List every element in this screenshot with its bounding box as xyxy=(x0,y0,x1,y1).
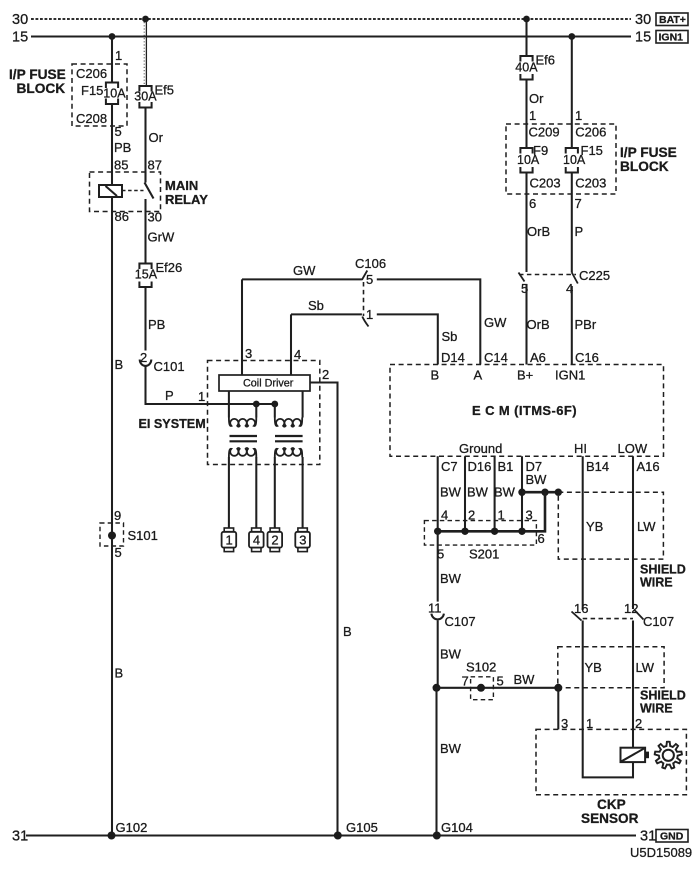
fuse F15 10A (I/P fuse block left) xyxy=(103,83,126,105)
wire: C101 to coil driver pin 1, P xyxy=(146,366,275,404)
svg-text:EI SYSTEM: EI SYSTEM xyxy=(139,417,206,431)
CKP pickup element xyxy=(621,748,650,762)
svg-text:9: 9 xyxy=(114,508,121,523)
svg-text:C225: C225 xyxy=(579,268,610,283)
svg-text:15: 15 xyxy=(635,30,651,46)
relay switch blade (pins 87-30) xyxy=(145,172,154,212)
wire: shield box 2 down to CKP pin 3 xyxy=(557,688,559,730)
ground node G104 xyxy=(433,820,473,840)
svg-text:BAT+: BAT+ xyxy=(659,14,686,26)
svg-text:C206: C206 xyxy=(76,66,107,81)
svg-text:2: 2 xyxy=(635,716,642,731)
node: shield box 1 terminal xyxy=(555,489,562,496)
node: S201 bus junction D16 xyxy=(461,528,468,535)
svg-text:1: 1 xyxy=(586,716,593,731)
svg-text:C206: C206 xyxy=(575,125,606,140)
fuse Ef6 40A xyxy=(515,53,555,80)
wire: ECM pin B14 (HI) down to C107 pin 16, YB xyxy=(583,456,609,610)
svg-text:10A: 10A xyxy=(563,153,586,167)
svg-text:5: 5 xyxy=(115,124,122,139)
svg-text:SHIELD: SHIELD xyxy=(640,689,686,703)
svg-text:GW: GW xyxy=(293,263,316,278)
svg-text:OrB: OrB xyxy=(527,317,550,332)
svg-text:4: 4 xyxy=(253,533,260,548)
fuse Ef5 30A xyxy=(134,83,174,108)
svg-text:15: 15 xyxy=(12,30,28,46)
svg-text:Ef6: Ef6 xyxy=(536,53,556,68)
CKP pin labels 3 / 1 / 2 xyxy=(561,716,642,731)
svg-text:16: 16 xyxy=(574,601,588,616)
svg-text:S201: S201 xyxy=(469,547,499,562)
wire: T2 secondary to spark plug 3 xyxy=(302,457,304,528)
bus rail 15 (IGN1) xyxy=(12,30,651,46)
wire: ECM pin A16 (LOW) down to C107 pin 12, LW xyxy=(633,456,660,609)
svg-text:1: 1 xyxy=(115,48,122,63)
node: S201 bus junction C7 xyxy=(434,528,441,535)
svg-text:GW: GW xyxy=(484,315,507,330)
connector C106 pin 5 hook xyxy=(362,271,367,280)
svg-text:I/P FUSE: I/P FUSE xyxy=(9,67,66,82)
wire: S201 splice bus xyxy=(438,492,545,531)
node: S201 bus junction B1 xyxy=(491,528,498,535)
svg-text:LW: LW xyxy=(636,660,655,675)
svg-text:Sb: Sb xyxy=(308,298,324,313)
node: junction of F15 feed on rail 15 xyxy=(109,33,116,40)
svg-text:D14: D14 xyxy=(441,350,465,365)
wire: coil driver pin 2 right then down to G105, B xyxy=(310,367,352,836)
svg-text:10A: 10A xyxy=(517,153,540,167)
ECM pin C7 wire to S201 xyxy=(438,456,462,531)
svg-text:1: 1 xyxy=(198,389,205,404)
I/P FUSE BLOCK (right) dashed box xyxy=(506,124,677,194)
svg-text:1: 1 xyxy=(366,307,373,322)
fuse Ef26 15A xyxy=(135,260,182,287)
IGN1 terminal box xyxy=(656,31,688,44)
spark plug 1 xyxy=(222,528,237,552)
svg-text:B: B xyxy=(431,368,440,383)
svg-text:12: 12 xyxy=(624,601,638,616)
spark plug 2 xyxy=(268,528,283,552)
svg-text:P: P xyxy=(165,388,174,403)
wire: Sb from C106 to ECM pin D14 xyxy=(377,314,458,364)
wire: C225 pin 5 to ECM pin A6, OrB xyxy=(527,284,550,365)
svg-text:A16: A16 xyxy=(637,459,660,474)
CKP reluctor gear xyxy=(655,742,682,769)
ignition coil T1 core xyxy=(230,436,258,441)
svg-text:WIRE: WIRE xyxy=(640,702,673,716)
wire: shield drain to shield box 1 xyxy=(522,491,558,494)
svg-text:C107: C107 xyxy=(643,614,674,629)
svg-text:6: 6 xyxy=(529,196,536,211)
shield wire box 1 (dashed) xyxy=(558,492,686,589)
node: primary feed junction T1 xyxy=(253,401,260,408)
wire: S101 down to ground G102, B xyxy=(112,539,123,836)
svg-text:C208: C208 xyxy=(76,111,107,126)
connector C106 pin 1 hook xyxy=(362,317,368,327)
connector C107 (right, pins 16 / 12) xyxy=(572,601,675,629)
svg-text:Coil Driver: Coil Driver xyxy=(243,378,294,390)
svg-text:BW: BW xyxy=(494,485,516,500)
relay contact link (dashed) xyxy=(122,190,144,192)
relay coil (pins 85-86) xyxy=(99,185,122,197)
wire: C107 pin 12 down into CKP sensor, LW xyxy=(633,621,655,748)
wire: CKP sensor coil loop (pin 1 to sensor) xyxy=(583,729,633,777)
svg-text:B: B xyxy=(115,666,124,681)
wire: coil driver pin 4 up to Sb xyxy=(291,314,301,375)
svg-text:YB: YB xyxy=(585,660,602,675)
wire: T2 secondary to spark plug 2 xyxy=(274,457,276,528)
node: shield box 2 terminal xyxy=(554,684,562,692)
svg-text:C14: C14 xyxy=(484,350,508,365)
connector C106 label and dashed body xyxy=(355,256,386,322)
node: S201 riser junction on drain wire xyxy=(541,489,548,496)
wire: fuse Ef26 down to connector C101, PB xyxy=(146,287,166,351)
svg-text:U5D15089: U5D15089 xyxy=(630,845,692,860)
svg-text:3: 3 xyxy=(299,533,306,548)
svg-text:6: 6 xyxy=(538,531,545,546)
svg-text:BW: BW xyxy=(440,571,462,586)
node: D7 shield branch junction xyxy=(518,489,525,496)
wire: GW from C106 to ECM pin C14 xyxy=(377,279,507,364)
ECM pin B1 wire to S201 xyxy=(494,456,516,531)
splice S201 dashed box xyxy=(424,521,544,562)
I/P FUSE BLOCK (left) dashed box xyxy=(9,64,127,126)
svg-text:BW: BW xyxy=(467,485,489,500)
svg-text:87: 87 xyxy=(148,158,162,173)
svg-text:C7: C7 xyxy=(441,459,458,474)
splice S101 xyxy=(100,508,158,560)
svg-text:P: P xyxy=(575,224,584,239)
svg-text:A: A xyxy=(474,368,483,383)
svg-text:D16: D16 xyxy=(468,459,492,474)
CKP gear hub hole xyxy=(663,750,674,761)
svg-text:LOW: LOW xyxy=(618,441,648,456)
ECM pin D7 wire to S201 xyxy=(522,456,547,531)
node: junction of Ef6 feed on rail 30 xyxy=(523,16,530,23)
fuse F15 10A (right) xyxy=(563,148,586,173)
wire: fuse F15 down to C225 pin 4, P xyxy=(572,173,583,273)
wire: C107 pin 16 down into CKP sensor, YB xyxy=(583,621,602,730)
node: splice S102 xyxy=(477,684,485,692)
ignition coil T2 primary winding xyxy=(275,418,302,427)
svg-text:GrW: GrW xyxy=(148,230,175,245)
svg-text:Or: Or xyxy=(149,130,164,145)
Coil Driver box U xyxy=(219,375,310,391)
svg-text:B: B xyxy=(115,357,124,372)
svg-text:BW: BW xyxy=(514,672,536,687)
ECM pin C14 label xyxy=(474,350,508,383)
svg-text:E C M (ITMS-6F): E C M (ITMS-6F) xyxy=(472,403,577,418)
svg-text:5: 5 xyxy=(115,545,122,560)
svg-text:G105: G105 xyxy=(346,820,378,835)
svg-text:C203: C203 xyxy=(530,176,561,191)
wire: fuse Ef5 to relay pin 87, Or xyxy=(146,108,164,183)
spark plug 4 xyxy=(249,528,264,552)
svg-text:IGN1: IGN1 xyxy=(555,368,585,383)
svg-text:BLOCK: BLOCK xyxy=(17,81,66,96)
svg-text:GND: GND xyxy=(660,831,684,843)
svg-text:B14: B14 xyxy=(586,459,609,474)
svg-text:LW: LW xyxy=(637,519,656,534)
svg-text:C16: C16 xyxy=(575,350,599,365)
svg-text:2: 2 xyxy=(322,367,329,382)
svg-text:2: 2 xyxy=(271,533,278,548)
svg-text:4: 4 xyxy=(294,347,301,362)
CKP SENSOR dashed box xyxy=(536,729,686,826)
svg-text:7: 7 xyxy=(575,196,582,211)
svg-text:Ground: Ground xyxy=(459,441,502,456)
ground node G105 xyxy=(334,820,378,840)
in-line connector C101 pin 2 xyxy=(140,350,185,374)
svg-text:S101: S101 xyxy=(128,528,158,543)
svg-text:B: B xyxy=(343,624,352,639)
svg-text:BLOCK: BLOCK xyxy=(620,159,669,174)
svg-text:SHIELD: SHIELD xyxy=(640,563,686,577)
spark plug 3 xyxy=(295,528,310,552)
shield wire box 2 (dashed) xyxy=(558,647,686,716)
wire: fuse Ef6 down to fuse F9, Or xyxy=(527,80,545,149)
svg-text:BW: BW xyxy=(440,647,462,662)
svg-text:SENSOR: SENSOR xyxy=(581,811,639,826)
svg-text:S102: S102 xyxy=(466,660,496,675)
svg-text:30: 30 xyxy=(148,210,162,225)
svg-text:BW: BW xyxy=(526,472,548,487)
svg-text:1: 1 xyxy=(529,108,536,123)
svg-text:C209: C209 xyxy=(529,125,560,140)
wire: T1 secondary to spark plug 1 xyxy=(228,457,230,528)
svg-text:BW: BW xyxy=(440,741,462,756)
node: primary feed junction T2 xyxy=(271,401,278,408)
ECM pin A6 label xyxy=(517,350,546,383)
wire: rail 15 down to fuse F15 xyxy=(112,37,122,83)
svg-text:CKP: CKP xyxy=(597,797,626,812)
EI SYSTEM dashed box xyxy=(139,361,320,465)
svg-text:30: 30 xyxy=(12,12,28,28)
svg-text:HI: HI xyxy=(574,441,587,456)
fuse F9 10A xyxy=(517,148,540,173)
svg-text:Ef26: Ef26 xyxy=(156,260,183,275)
node: S201 bus junction D7 xyxy=(518,528,525,535)
wire: Sb from coil driver pin 4 to C106 pin 1 xyxy=(291,298,362,314)
svg-text:10A: 10A xyxy=(103,87,126,101)
svg-text:B+: B+ xyxy=(517,368,533,383)
wire: T1 secondary to spark plug 4 xyxy=(255,457,257,528)
svg-text:A6: A6 xyxy=(530,350,546,365)
svg-text:Ef5: Ef5 xyxy=(155,83,175,98)
svg-text:BW: BW xyxy=(440,485,462,500)
wire: rail 30 down to fuse Ef5 (dotted companion) xyxy=(144,19,146,86)
svg-text:G102: G102 xyxy=(116,820,148,835)
svg-text:G104: G104 xyxy=(441,820,473,835)
wire: relay coil pin 86 down, B xyxy=(112,197,129,532)
svg-text:PBr: PBr xyxy=(575,317,597,332)
svg-text:31: 31 xyxy=(12,829,28,845)
svg-text:3: 3 xyxy=(561,716,568,731)
svg-text:1: 1 xyxy=(575,108,582,123)
wire: relay pin 30 down to fuse Ef26, GrW xyxy=(146,210,175,264)
svg-text:WIRE: WIRE xyxy=(640,576,673,590)
svg-text:I/P FUSE: I/P FUSE xyxy=(620,145,677,160)
svg-text:15A: 15A xyxy=(135,268,158,282)
wire: GW from coil driver pin 3 to C106 pin 5 xyxy=(242,263,362,279)
svg-text:Or: Or xyxy=(529,91,544,106)
svg-text:5: 5 xyxy=(497,674,504,689)
svg-text:RELAY: RELAY xyxy=(165,192,208,207)
svg-text:B1: B1 xyxy=(498,459,514,474)
svg-text:PB: PB xyxy=(148,317,165,332)
svg-text:PB: PB xyxy=(114,140,131,155)
node: junction of Ef5 feed on rail 30 xyxy=(142,16,149,23)
svg-text:F15: F15 xyxy=(81,83,103,98)
ignition coil T2 secondary winding xyxy=(275,448,302,457)
ground node G102 xyxy=(108,820,148,840)
svg-text:31: 31 xyxy=(640,829,656,845)
ECM pin C16 label xyxy=(555,350,599,383)
ignition coil T2 core xyxy=(275,436,303,441)
wire: fuse F9 down to C225 pin 5, OrB xyxy=(527,173,551,273)
ECM (ITMS-6F) dashed box xyxy=(390,365,664,457)
svg-text:MAIN: MAIN xyxy=(165,178,198,193)
ignition coil T1 secondary winding xyxy=(229,448,256,457)
svg-text:C101: C101 xyxy=(154,359,185,374)
node: junction of F15 right feed on rail 15 xyxy=(568,33,575,40)
svg-text:3: 3 xyxy=(245,346,252,361)
wire: C107 pin 11 down to S102, BW xyxy=(438,620,462,688)
svg-text:Sb: Sb xyxy=(442,329,458,344)
svg-text:IGN1: IGN1 xyxy=(659,32,684,44)
connector C225 xyxy=(519,268,611,296)
wire: rail 30 down to fuse Ef6 xyxy=(525,19,527,56)
wire: S102 down to ground G104, BW xyxy=(437,688,462,836)
wire: fuse F15 to relay coil pin 85, PB xyxy=(112,104,131,185)
node: S102 junction left xyxy=(433,684,441,692)
svg-text:5: 5 xyxy=(366,272,373,287)
svg-text:C106: C106 xyxy=(355,256,386,271)
ECM bottom labels Ground / HI / LOW xyxy=(459,441,648,456)
svg-text:85: 85 xyxy=(114,158,128,173)
ignition coil T1 primary leads xyxy=(229,391,256,418)
svg-text:C107: C107 xyxy=(445,614,476,629)
ECM pin D14 label xyxy=(431,350,465,383)
svg-text:7: 7 xyxy=(462,674,469,689)
ignition coil T2 primary leads xyxy=(275,391,303,418)
ignition coil T1 primary winding xyxy=(229,418,256,427)
wire: S102 splice wire to shield box 2, BW xyxy=(437,672,559,688)
svg-text:1: 1 xyxy=(226,533,233,548)
splice S102 dashed box xyxy=(462,660,504,700)
MAIN RELAY dashed box xyxy=(90,172,209,212)
BAT+ terminal box xyxy=(656,13,688,26)
svg-text:OrB: OrB xyxy=(527,224,550,239)
in-line connector C107 pin 11 xyxy=(431,614,475,629)
svg-text:86: 86 xyxy=(115,209,129,224)
svg-text:YB: YB xyxy=(586,519,603,534)
svg-text:30: 30 xyxy=(635,12,651,28)
ECM pin D16 wire to S201 xyxy=(465,456,491,531)
svg-text:C203: C203 xyxy=(575,176,606,191)
wire: C225 pin 4 to ECM pin C16, PBr xyxy=(572,286,597,365)
svg-text:11: 11 xyxy=(428,601,442,616)
wire: S201 pin 5 down to connector C107 pin 11, BW xyxy=(428,531,462,615)
GND terminal box xyxy=(656,830,688,843)
wire: rail 15 down to fuse F15 (right) xyxy=(572,37,582,149)
svg-text:2: 2 xyxy=(140,350,147,365)
bus rail 31 (GND) xyxy=(12,829,656,845)
wire: coil driver pin 3 up to GW xyxy=(242,279,252,375)
bus rail 30 (BAT+) xyxy=(12,12,651,28)
